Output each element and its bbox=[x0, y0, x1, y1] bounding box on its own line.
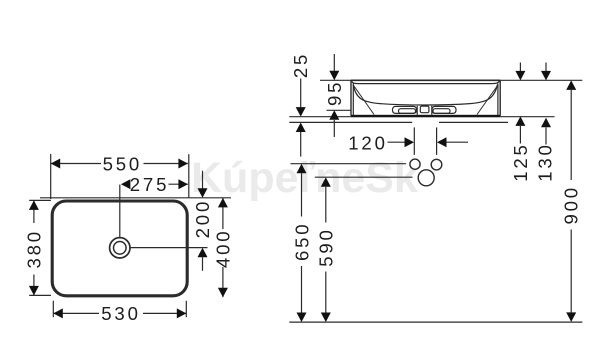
centerline horizontal bbox=[130, 247, 207, 249]
arrow 275 left bbox=[121, 179, 130, 189]
arrow 530 right bbox=[177, 308, 187, 318]
dim 530 extension ticks bbox=[52, 301, 54, 317]
dim 125 line bbox=[519, 63, 521, 72]
dim 550 line bbox=[51, 163, 101, 165]
arrow 120 right bbox=[437, 137, 447, 147]
arrow 200 bottom bbox=[198, 248, 208, 258]
drain inner circle bbox=[114, 242, 127, 255]
svg-text:590: 590 bbox=[316, 227, 337, 266]
dim 275 line bbox=[169, 183, 188, 185]
svg-text:380: 380 bbox=[23, 229, 44, 268]
svg-text:900: 900 bbox=[561, 185, 582, 224]
dim 550 extension right bbox=[188, 154, 190, 197]
arrow 130 top bbox=[541, 71, 551, 81]
basin outline top view bbox=[52, 201, 187, 296]
dim 120 extension lines bbox=[413, 127, 415, 154]
arrow 550 left bbox=[51, 159, 61, 169]
slab bottom line bbox=[289, 121, 412, 123]
arrow 380 bottom bbox=[29, 286, 39, 296]
drain wing right inner bbox=[433, 109, 450, 114]
arrow 200 top bbox=[198, 188, 208, 198]
arrow 900 bottom bbox=[566, 312, 576, 322]
arrow 590 bottom bbox=[321, 313, 331, 323]
arrow 25 top bbox=[296, 107, 306, 117]
wall line (top view) bbox=[40, 197, 231, 199]
svg-text:275: 275 bbox=[130, 174, 169, 195]
basin side view left edge bbox=[350, 80, 352, 116]
arrow 400 top bbox=[218, 198, 228, 208]
dim 900 line bbox=[570, 90, 572, 180]
arrow 25 bottom bbox=[296, 123, 306, 133]
bowl profile curve bbox=[353, 85, 497, 106]
dim 200 line bbox=[202, 171, 204, 189]
arrow 380 top bbox=[29, 200, 39, 210]
drain center box bbox=[420, 106, 429, 113]
arrow 120 left bbox=[405, 137, 415, 147]
arrow 550 right bbox=[178, 159, 188, 169]
basin side view top edge bbox=[351, 79, 500, 81]
svg-text:650: 650 bbox=[291, 222, 312, 261]
dim 380 line bbox=[33, 201, 35, 224]
svg-text:125: 125 bbox=[510, 142, 531, 181]
svg-text:130: 130 bbox=[535, 142, 556, 181]
dim 120 line bbox=[388, 141, 405, 143]
arrow 650 bottom bbox=[297, 313, 307, 323]
dim 380 extension ticks bbox=[29, 199, 51, 201]
bowl bottom extension line bbox=[327, 109, 352, 111]
svg-text:95: 95 bbox=[324, 80, 345, 106]
arrow 530 left bbox=[53, 308, 63, 318]
basin side view right edge bbox=[499, 80, 501, 116]
corner diagonal left bbox=[354, 86, 374, 115]
basin inner rim line bbox=[352, 81, 500, 84]
dim 400 line bbox=[222, 198, 224, 229]
arrow 900 top bbox=[566, 80, 576, 90]
dim 95 line bbox=[333, 54, 335, 71]
dim 25 line bbox=[300, 79, 302, 108]
arrow 590 top bbox=[321, 177, 331, 187]
svg-text:KúpeľneSk: KúpeľneSk bbox=[191, 154, 418, 202]
dim 650 line bbox=[301, 173, 303, 216]
drain center divider right bbox=[431, 106, 433, 115]
arrow 125 bottom bbox=[515, 116, 525, 126]
faucet hole circle 2 bbox=[431, 159, 442, 170]
arrow 125 top bbox=[515, 71, 525, 81]
drain wing left inner bbox=[399, 109, 416, 114]
dim 590 line bbox=[325, 187, 327, 223]
svg-text:120: 120 bbox=[348, 132, 387, 153]
svg-text:400: 400 bbox=[213, 229, 234, 268]
dim 550 extension left bbox=[50, 154, 52, 199]
arrow 95 top bbox=[329, 71, 339, 81]
floor line bbox=[289, 321, 582, 323]
drain wing left bbox=[393, 106, 417, 113]
590 reference line bbox=[315, 176, 413, 178]
650 reference line bbox=[291, 163, 407, 165]
arrow 275 right bbox=[178, 179, 188, 189]
svg-text:25: 25 bbox=[290, 52, 311, 78]
drain wing right bbox=[432, 106, 456, 113]
faucet hole circle 1 bbox=[410, 159, 420, 169]
drain center divider left bbox=[416, 106, 418, 115]
corner diagonal right bbox=[477, 86, 498, 115]
drain hole circle bbox=[418, 170, 434, 186]
dim 130 line bbox=[545, 63, 547, 72]
svg-text:550: 550 bbox=[103, 153, 142, 174]
arrow 130 bottom bbox=[541, 118, 551, 128]
arrow 400 bottom bbox=[218, 288, 228, 298]
svg-text:530: 530 bbox=[101, 303, 140, 324]
arrow 650 top bbox=[297, 164, 307, 174]
dim 530 line bbox=[53, 312, 99, 314]
rim extension line (side view) bbox=[320, 79, 582, 81]
basin bottom dark bar bbox=[351, 115, 500, 117]
svg-text:200: 200 bbox=[192, 199, 213, 238]
drain outer circle bbox=[110, 238, 130, 258]
slab top line bbox=[289, 116, 554, 118]
centerline vertical bbox=[119, 185, 121, 238]
arrow 95 bottom bbox=[329, 110, 339, 120]
